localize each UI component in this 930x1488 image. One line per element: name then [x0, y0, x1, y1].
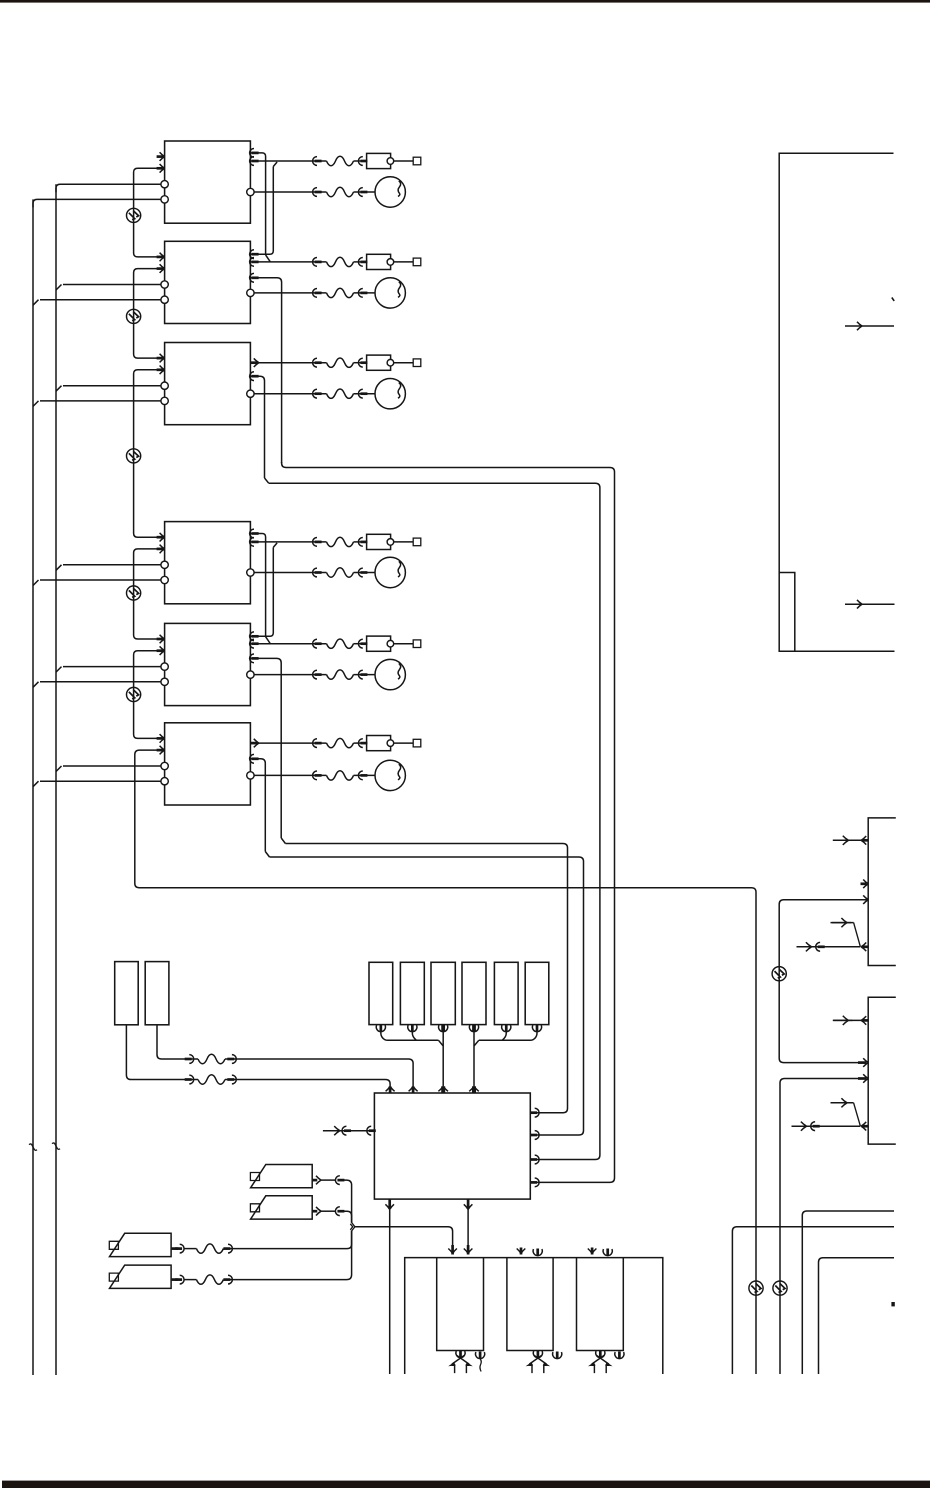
wire connector to terminal B4: [394, 541, 413, 543]
pin circle B4.right: [247, 569, 254, 576]
wire lamp row B3: [254, 393, 375, 395]
pin arrow F2: [408, 1025, 417, 1032]
noise filter lamp B6: [327, 771, 354, 780]
connector J1: [367, 153, 394, 168]
bevel U6 long: [265, 852, 269, 858]
wire E1 to head unit: [126, 1025, 390, 1086]
wire tap to B2.R1: [250, 167, 273, 255]
tweeter speaker SP1: [250, 1165, 312, 1188]
door ECU block U5: [165, 623, 251, 705]
arrow E2 wire b: [227, 1055, 236, 1064]
stub arrow BB3 b: [603, 1249, 612, 1256]
bus N2 entry bevel B3: [33, 401, 39, 407]
harness arrow lamp B6 b: [358, 771, 367, 780]
wire lamp row B5: [254, 674, 375, 676]
arrow into B1.L2: [157, 164, 165, 173]
harness arrow lamp B3 b: [358, 389, 367, 398]
arrow into B5.L2: [157, 646, 165, 655]
door speaker SP4: [109, 1265, 171, 1288]
noise filter conn B1: [327, 156, 354, 165]
pin arrow into HU top4: [469, 1086, 479, 1093]
wire SP1 pin: [312, 1176, 344, 1185]
wire U3.in long run: [269, 483, 600, 1159]
pin arrow into HU top1: [386, 1086, 395, 1093]
pin circle B1.right: [247, 188, 254, 195]
arrow into B3.L1: [157, 354, 165, 363]
bevel U5 long: [281, 838, 285, 844]
pin arrow F4: [469, 1025, 478, 1032]
clipped text dot: [891, 1302, 894, 1306]
arrow E1 wire b: [227, 1075, 236, 1084]
wire connector to terminal B1: [394, 160, 413, 162]
edge arrow B5.R1: [250, 632, 259, 641]
stub arrow HU left: [325, 1126, 344, 1135]
wire U6.in long run: [270, 857, 584, 1135]
wire lamp row B1: [254, 191, 375, 193]
connector pair pin A1: [833, 836, 868, 845]
harness arrow lamp B4 b: [358, 568, 367, 577]
edge arrow U3.in: [250, 372, 259, 381]
noise filter E1: [198, 1075, 225, 1084]
wire U3.in row: [250, 376, 264, 478]
wire HU bottom1 down: [389, 1209, 391, 1374]
stub pin A2: [861, 880, 869, 889]
edge arrow U6.in: [250, 754, 259, 763]
shield symbol B2-B3: [127, 309, 141, 323]
harness arrow lamp B4 a: [313, 568, 322, 577]
pin arrow HU right2: [530, 1131, 539, 1140]
wire SP1 to junction: [344, 1180, 352, 1223]
bus N2 entry bevel B5: [33, 682, 39, 688]
capacitor block E1: [115, 962, 139, 1025]
wire U6.in row: [250, 759, 265, 852]
out arrow B6 conn row: [250, 739, 258, 748]
wire bus N1 tap to B2: [63, 284, 161, 286]
wire to edge a: [802, 1211, 894, 1374]
pin circle B3.right: [247, 390, 254, 397]
shield symbol B4-B5: [127, 586, 141, 600]
harness arrow conn B3 b: [358, 358, 367, 367]
horn symbol BB2: [527, 1351, 549, 1374]
noise filter conn B6: [327, 738, 354, 747]
wire to edge c: [819, 1258, 895, 1374]
shield symbol tail: [749, 1281, 763, 1295]
switch pin B: [792, 1098, 869, 1131]
bus N2 entry bevel B6: [33, 781, 39, 787]
arrow into B5.L1: [157, 635, 165, 644]
shielded wire B3-B4: [134, 370, 165, 537]
harness arrow lamp B5 a: [313, 670, 322, 679]
pin circle B1.c2: [161, 196, 168, 203]
bus N1 entry bevel B6: [56, 766, 62, 772]
arrow SP3 b: [223, 1244, 232, 1253]
wire F4 down: [473, 1032, 475, 1086]
woofer amp block BB1: [437, 1258, 484, 1351]
connector pair pin B1: [833, 1016, 868, 1025]
wire SP3 to junction: [223, 1231, 351, 1249]
wire bus N1 tap to B5: [63, 666, 161, 668]
arrow E2 wire a: [185, 1055, 194, 1064]
pin arrow HU right3: [530, 1155, 539, 1164]
harness arrow lamp B2 a: [313, 289, 322, 298]
harness arrow conn B6 a: [313, 739, 322, 748]
arrow into B2.L2: [157, 264, 165, 273]
shield symbol B3-B4: [127, 449, 141, 463]
noise filter conn B5: [327, 639, 354, 648]
wire U5.R3 row: [250, 658, 281, 838]
pin circle B6.right: [247, 772, 254, 779]
arrow into B2.L1: [157, 253, 165, 262]
wire U5.R3 long run: [285, 844, 567, 1113]
clipped text mark: [892, 298, 894, 301]
fuse block F6: [525, 962, 549, 1024]
lamp L5: [375, 659, 405, 689]
noise filter lamp B4: [327, 568, 354, 577]
lower junction box outline: [405, 1258, 663, 1374]
harness arrow lamp B1 b: [358, 188, 367, 197]
bevel join B5 conn: [266, 637, 271, 644]
stub socket HU left: [342, 1126, 351, 1135]
terminal square B4: [413, 538, 421, 546]
arrow into B4.L2: [157, 545, 165, 554]
door ECU block U1: [165, 141, 251, 223]
connector J2: [367, 254, 394, 269]
edge arrow U5.R3: [250, 654, 259, 663]
wire bus N1 tap to B4: [63, 564, 161, 566]
amp internal wire b: [845, 600, 895, 609]
arrow into B6.L1: [157, 734, 165, 743]
tap bevel B4 conn: [273, 543, 277, 548]
harness arrow lamp B6 a: [313, 771, 322, 780]
harness arrow lamp B3 a: [313, 389, 322, 398]
lamp L4: [375, 557, 405, 587]
harness arrow conn B1 b: [358, 157, 367, 166]
wire bus N1 to U1 pin: [56, 184, 161, 192]
shield symbol B5-B6: [127, 687, 141, 701]
door speaker SP3: [109, 1233, 171, 1256]
bundle junction: [350, 1223, 355, 1232]
pin arrow F6: [532, 1025, 541, 1032]
edge arrow U2.R3: [250, 273, 259, 282]
wire bus N2 tap to B3: [40, 400, 161, 402]
harness arrow conn B2 b: [358, 258, 367, 267]
pin arrow F5: [502, 1025, 511, 1032]
fuse block F3: [431, 962, 455, 1024]
wire connector to terminal B6: [394, 742, 413, 744]
fuse block F1: [369, 962, 393, 1024]
out arrow B3 conn row: [250, 358, 258, 367]
page bottom scan bar: [2, 1481, 930, 1488]
pin circle B6.c2: [161, 778, 168, 785]
head unit / radio block: [374, 1093, 530, 1199]
drain arrow BB2: [553, 1352, 562, 1359]
shielded wire B1-B2: [134, 168, 165, 257]
shield symbol B1-B2: [127, 208, 141, 222]
wire F5 merge: [502, 1032, 506, 1040]
wire conn row B1: [250, 160, 366, 162]
door ECU block U3: [165, 343, 251, 425]
harness arrow conn B4 a: [313, 538, 322, 547]
wire B4.R1: [250, 534, 265, 637]
wire bus N1 tap to B3: [63, 385, 161, 387]
harness arrow lamp B2 b: [358, 289, 367, 298]
pin arrow HU right1: [530, 1108, 539, 1117]
pin circle B1.c1: [161, 181, 168, 188]
antenna amp block B: [868, 997, 896, 1144]
amp internal wire a: [845, 322, 894, 331]
pin circle B6.c1: [161, 762, 168, 769]
pin arrow HU right4: [530, 1178, 539, 1187]
wire conn row B2: [250, 261, 366, 263]
wire bus N1 tap to B6: [63, 765, 161, 767]
break mark on bus N2: [29, 1144, 37, 1150]
pin circle B2.c1: [161, 281, 168, 288]
horn symbol BB1: [450, 1351, 472, 1374]
pin arrow HU bottom2: [464, 1199, 473, 1209]
door ECU block U6: [165, 723, 251, 805]
bus wire N1 (left vertical): [55, 184, 57, 1375]
stub arrow U1.L1: [157, 152, 165, 161]
drain tail BB1: [480, 1359, 481, 1372]
shield link wire blockA: [779, 900, 868, 1067]
wire F1 merge: [381, 1032, 439, 1040]
woofer amp block BB3: [577, 1258, 624, 1351]
wire B1.R1: [250, 153, 265, 255]
connector J3: [367, 355, 394, 370]
pin circle B4.c2: [161, 576, 168, 583]
harness arrow conn B4 b: [358, 538, 367, 547]
shielded wire B4-B5: [134, 549, 165, 639]
wire SP4 pin: [172, 1275, 197, 1284]
wire bus N2 tap to B6: [40, 780, 161, 782]
arrow into B4.L1: [157, 533, 165, 542]
harness arrow conn B5 a: [313, 639, 322, 648]
fuse block F5: [494, 962, 518, 1024]
wire connector to terminal B3: [394, 362, 413, 364]
wire conn row B6: [250, 742, 366, 744]
terminal square B1: [413, 157, 421, 165]
bus N1 entry bevel B3: [56, 386, 62, 392]
pin circle B3.c2: [161, 397, 168, 404]
lamp L1: [375, 177, 405, 207]
wire SP2 pin: [312, 1207, 344, 1216]
terminal square B6: [413, 739, 421, 747]
arrow E1 wire a: [185, 1075, 194, 1084]
fuse block F2: [400, 962, 424, 1024]
shield symbol link A-B: [772, 967, 786, 981]
pin arrow HU bottom1: [385, 1199, 394, 1209]
connector J4: [367, 534, 394, 549]
harness arrow conn B6 b: [358, 739, 367, 748]
noise filter lamp B1: [327, 187, 354, 196]
wire E2 to head unit: [157, 1025, 413, 1086]
wire U2.R3 row: [250, 278, 281, 463]
arrow into B3.L2: [157, 366, 165, 375]
wire bus N2 tap to B5: [40, 681, 161, 683]
harness arrow conn B1 a: [313, 157, 322, 166]
edge arrow B4.R1: [250, 529, 259, 538]
pin circle B2.c2: [161, 296, 168, 303]
terminal square B5: [413, 640, 421, 648]
bus wire N2 (far-left vertical): [32, 199, 34, 1375]
wire U2.R3 long run: [282, 462, 615, 1182]
wire conn row B5: [250, 643, 366, 645]
noise filter SP4: [196, 1275, 223, 1284]
pin circle B4.c1: [161, 561, 168, 568]
woofer amp block BB2: [507, 1258, 553, 1351]
bus N2 entry bevel B4: [33, 580, 39, 586]
wire bus N2 tap to B4: [40, 579, 161, 581]
noise filter lamp B2: [327, 288, 354, 297]
tap bevel B1 conn: [273, 162, 277, 167]
terminal square B2: [413, 258, 421, 266]
wire SP2 to junction: [344, 1211, 352, 1223]
shield symbol B tail: [773, 1281, 787, 1295]
lamp L6: [375, 760, 405, 790]
harness arrow conn B3 a: [313, 358, 322, 367]
door ECU block U4: [165, 522, 251, 604]
wire lamp row B4: [254, 572, 375, 574]
arrow into A pin3: [863, 895, 868, 904]
bus N1 entry bevel B4: [56, 565, 62, 571]
terminal square B3: [413, 359, 421, 367]
shielded wire B5-B6: [134, 651, 165, 739]
noise filter conn B2: [327, 257, 354, 266]
noise filter lamp B3: [327, 389, 354, 398]
switch pin A: [797, 918, 869, 951]
pin arrow into HU top3: [438, 1086, 448, 1093]
stub arrow BB3 a: [588, 1248, 597, 1255]
lamp L3: [375, 379, 405, 409]
shielded wire B2-B3: [134, 269, 165, 359]
edge arrow HU left: [367, 1126, 376, 1135]
bus N2 entry bevel B2: [33, 300, 39, 306]
arrow SP4 b: [223, 1275, 232, 1284]
noise filter E2: [198, 1054, 225, 1063]
amplifier notch: [779, 573, 795, 652]
horn symbol BB3: [590, 1351, 612, 1374]
door ECU block U2: [165, 241, 251, 323]
lamp L2: [375, 278, 405, 308]
wire tap to B5.R1: [250, 547, 273, 636]
stub arrow BB2 a: [517, 1248, 526, 1255]
edge arrow B5 conn row: [250, 639, 259, 648]
bevel U3 long: [265, 478, 269, 483]
wire F6 merge: [479, 1032, 537, 1040]
pin circle B3.c1: [161, 382, 168, 389]
pin circle B5.c2: [161, 678, 168, 685]
pin arrow F1: [376, 1025, 385, 1032]
stub wire HU left: [323, 1130, 375, 1132]
harness arrow lamp B1 a: [313, 188, 322, 197]
edge arrow B2.R1: [250, 250, 259, 259]
pin circle B5.c1: [161, 663, 168, 670]
harness arrow lamp B5 b: [358, 670, 367, 679]
bus N1 entry bevel B2: [56, 285, 62, 291]
harness arrow conn B5 b: [358, 639, 367, 648]
bevel into F4 wire: [474, 1040, 479, 1046]
bus N1 entry bevel B5: [56, 667, 62, 673]
connector J6: [367, 736, 394, 751]
wire junction to B1: [355, 1227, 457, 1255]
break mark on bus N1: [52, 1143, 60, 1149]
wire bus N2 tap to B2: [40, 299, 161, 301]
wire HU bottom2 down: [464, 1206, 473, 1255]
noise filter lamp B5: [327, 670, 354, 679]
wire F2 merge: [412, 1032, 416, 1040]
wire conn row B4: [250, 541, 366, 543]
pin arrow F3: [439, 1025, 448, 1032]
bevel join B2 conn: [266, 255, 271, 262]
noise filter SP3: [196, 1244, 223, 1253]
wire SP4 to junction: [223, 1231, 351, 1280]
page top scan bar: [0, 0, 930, 3]
noise filter conn B4: [327, 537, 354, 546]
stub arrow BB2 b: [533, 1249, 542, 1256]
wire lamp row B2: [254, 292, 375, 294]
wire SP3 pin: [172, 1244, 197, 1253]
shielded wire B6 tail: [135, 750, 756, 1374]
pin circle B5.right: [247, 671, 254, 678]
fuse block F4: [462, 962, 486, 1024]
drain arrow BB3: [615, 1352, 624, 1359]
arrow into B6.L2: [157, 746, 165, 755]
tweeter speaker SP2: [250, 1196, 312, 1219]
edge arrow B1 conn row: [250, 157, 259, 166]
pin arrow into HU top2: [409, 1086, 418, 1093]
wire to edge b: [732, 1227, 894, 1374]
edge arrow B2 conn row: [250, 258, 259, 267]
wire bus N2 to U1 pin: [33, 199, 161, 207]
wire F3 down: [442, 1032, 444, 1086]
wire conn row B3: [250, 362, 366, 364]
wire connector to terminal B2: [394, 261, 413, 263]
noise filter conn B3: [327, 358, 354, 367]
antenna amp block A: [868, 818, 896, 966]
harness arrow conn B2 a: [313, 258, 322, 267]
edge arrow B1.R1: [250, 149, 259, 158]
capacitor block E2: [145, 962, 169, 1025]
drain arrow BB1: [476, 1352, 485, 1359]
wire lamp row B6: [254, 774, 375, 776]
wire connector to terminal B5: [394, 643, 413, 645]
edge arrow B4 conn row: [250, 538, 259, 547]
long wire to B pin2: [780, 1074, 868, 1374]
connector J5: [367, 636, 394, 651]
bevel into F3 wire: [439, 1040, 444, 1046]
amplifier unit outline: [779, 153, 894, 651]
pin circle B2.right: [247, 289, 254, 296]
